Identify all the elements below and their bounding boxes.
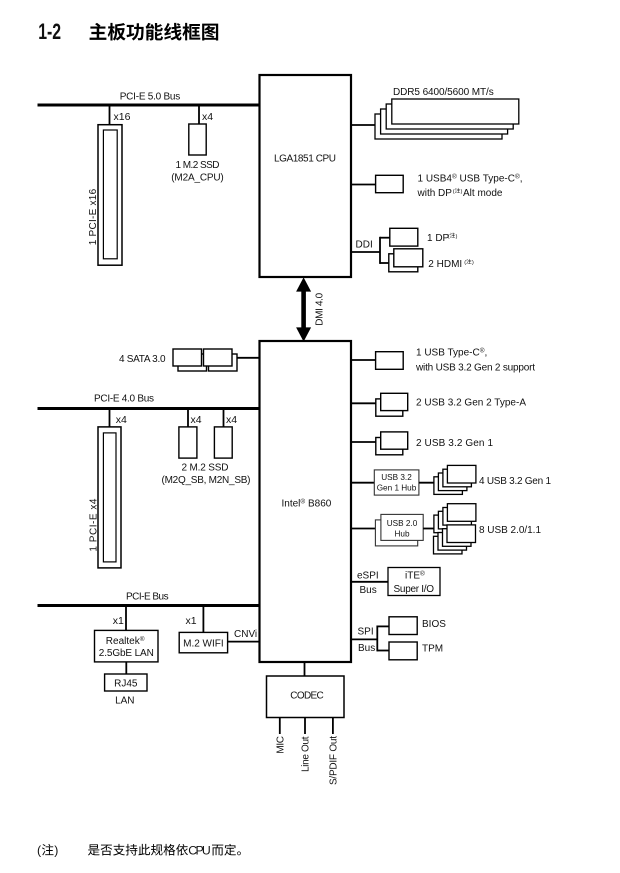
svg-text:x16: x16: [114, 111, 131, 123]
block TPM: [389, 642, 417, 660]
svg-text:Bus: Bus: [360, 585, 377, 596]
wire SPI spine: [376, 626, 378, 652]
port USB 3.2 Gen2 shadow: [376, 399, 403, 416]
port USB 3.2 Gen2 front: [381, 393, 408, 410]
connector M2Q_SB: [179, 427, 197, 458]
svg-text:USB 2.0: USB 2.0: [387, 519, 418, 528]
svg-text:S/PDIF Out: S/PDIF Out: [328, 736, 339, 785]
arrow DMI 4.0: [296, 277, 311, 341]
port USB Type-C: [376, 352, 404, 370]
svg-text:4 SATA 3.0: 4 SATA 3.0: [119, 354, 166, 365]
wire eSPI: [351, 581, 388, 583]
svg-text:2 USB 3.2 Gen 1: 2 USB 3.2 Gen 1: [416, 438, 493, 449]
svg-text:Intel® B860: Intel® B860: [282, 498, 332, 510]
svg-text:USB 3.2: USB 3.2: [381, 473, 412, 482]
svg-text:1 USB4® USB Type-C®,: 1 USB4® USB Type-C®,: [418, 172, 523, 184]
svg-text:(: (: [448, 234, 450, 240]
svg-text:PCI-E 4.0 Bus: PCI-E 4.0 Bus: [94, 393, 154, 404]
block Realtek 2.5GbE LAN: [95, 630, 159, 662]
wire B860 to USB 2.0 hub: [351, 528, 376, 530]
svg-text:2.5GbE LAN: 2.5GbE LAN: [99, 648, 154, 659]
svg-text:CNVi: CNVi: [234, 629, 257, 640]
hub USB 2.0 Hub shadow: [375, 520, 417, 546]
block RJ45: [105, 674, 147, 691]
svg-text:RJ45: RJ45: [114, 679, 138, 690]
wire x4 slot branch: [109, 409, 111, 428]
svg-text:CPU: CPU: [188, 844, 211, 858]
bus PCI-E line: [38, 604, 260, 607]
connector DDR5 slot 4: [375, 114, 502, 139]
block Intel B860: [260, 341, 352, 662]
connector SATA pair2 shadow: [209, 354, 238, 371]
wire x1 branch LAN: [125, 606, 127, 631]
svg-text:2 HDMI: 2 HDMI: [428, 259, 462, 270]
title text 主板功能线框图: [90, 23, 219, 41]
svg-text:(M2A_CPU): (M2A_CPU): [171, 173, 224, 184]
ports 4 USB 3.2 Gen 1 stack: [434, 465, 476, 494]
connector M2A_CPU: [189, 124, 206, 155]
port USB 3.2 Gen1 front: [381, 432, 408, 449]
wire MIC: [279, 718, 281, 734]
block CPU LGA1851: [260, 75, 352, 277]
port DP: [390, 228, 418, 246]
connector DDR5 slot 2: [386, 104, 513, 129]
svg-text:): ): [472, 260, 474, 266]
svg-text:1 DP: 1 DP: [427, 233, 450, 244]
slot PCI-E x4 outer: [98, 427, 121, 568]
wire DDI horizontal: [351, 251, 380, 253]
svg-text:x4: x4: [226, 414, 237, 426]
svg-text:x4: x4: [191, 414, 202, 426]
svg-text:DMI 4.0: DMI 4.0: [314, 292, 325, 325]
svg-text:BIOS: BIOS: [422, 619, 446, 630]
slot PCI-E x4 inner: [103, 433, 116, 562]
wire LAN to RJ45: [125, 662, 127, 675]
connector SATA pair1 front: [173, 349, 202, 366]
svg-text:Super I/O: Super I/O: [394, 584, 435, 595]
svg-text:1-2: 1-2: [38, 21, 61, 45]
slot PCI-E x16 outer: [98, 125, 122, 266]
svg-text:M.2 WIFI: M.2 WIFI: [183, 638, 224, 649]
wire B860 to USB 3.2 Gen1 ports: [351, 441, 376, 443]
block CODEC: [267, 676, 345, 718]
wire M2N branch: [223, 409, 225, 428]
svg-text:Hub: Hub: [394, 529, 409, 538]
port HDMI shadow: [389, 254, 418, 272]
svg-text:(M2Q_SB, M2N_SB): (M2Q_SB, M2N_SB): [162, 475, 251, 486]
svg-text:): ): [456, 234, 458, 240]
svg-text:with USB 3.2 Gen 2 support: with USB 3.2 Gen 2 support: [415, 363, 535, 374]
wire SPI horizontal: [351, 638, 377, 640]
connector DDR5 slot 3: [381, 109, 508, 134]
svg-text:1 PCI-E x16: 1 PCI-E x16: [88, 188, 99, 245]
svg-text:LAN: LAN: [115, 695, 134, 706]
svg-text:1 PCI-E x4: 1 PCI-E x4: [89, 498, 100, 551]
svg-text:x1: x1: [186, 615, 197, 627]
svg-text:8 USB 2.0/1.1: 8 USB 2.0/1.1: [479, 525, 541, 536]
port USB 3.2 Gen1 shadow: [376, 438, 403, 455]
wire stub to HDMI: [380, 262, 390, 264]
ports 8 USB 2.0 stack lower: [434, 525, 476, 554]
port HDMI front: [394, 249, 423, 267]
svg-text:DDR5 6400/5600 MT/s: DDR5 6400/5600 MT/s: [393, 87, 494, 98]
wire B860 to USB 3.2 hub: [351, 482, 374, 484]
svg-text:eSPI: eSPI: [357, 570, 379, 581]
block BIOS: [389, 617, 417, 635]
svg-text:CODEC: CODEC: [290, 690, 324, 701]
svg-text:Bus: Bus: [358, 643, 375, 654]
svg-text:x4: x4: [202, 111, 213, 123]
wire stub BIOS: [377, 625, 389, 627]
svg-text:1 USB Type-C®,: 1 USB Type-C®,: [416, 346, 487, 358]
svg-text:SPI: SPI: [358, 627, 374, 638]
ports 8 USB 2.0 stack upper: [434, 504, 476, 533]
wire CPU to USB4 port: [351, 184, 376, 186]
svg-text:DDI: DDI: [356, 239, 373, 250]
svg-text:PCI-E Bus: PCI-E Bus: [126, 591, 169, 602]
svg-text:TPM: TPM: [422, 644, 443, 655]
wire DDI spine: [379, 237, 381, 264]
wire Line Out: [304, 718, 306, 734]
svg-text:x1: x1: [113, 615, 124, 627]
block iTE Super I/O: [388, 568, 440, 596]
svg-text:PCI-E 5.0 Bus: PCI-E 5.0 Bus: [120, 92, 181, 103]
wire x4 branch to M2A: [198, 105, 200, 124]
connector SATA pair2 front: [204, 349, 233, 366]
svg-text:Line Out: Line Out: [301, 736, 312, 772]
wire stub to DP: [380, 237, 391, 239]
wire B860 to USB Type-C port: [351, 359, 376, 361]
wire x16 branch: [109, 105, 111, 125]
bus PCI-E 4.0 line: [38, 407, 260, 410]
slot PCI-E x16 inner: [103, 130, 117, 259]
bus PCI-E 5.0 line: [38, 104, 260, 107]
wire M2Q branch: [187, 409, 189, 428]
footnote text 是否支持此规格依CPU而定。: [88, 844, 188, 856]
wire hub to 4xUSB stack: [419, 482, 435, 484]
svg-text:1 M.2 SSD: 1 M.2 SSD: [176, 160, 220, 171]
hub USB 3.2 Gen 1 Hub: [374, 470, 419, 495]
svg-text:(: (: [464, 260, 466, 266]
svg-text:LGA1851 CPU: LGA1851 CPU: [274, 153, 336, 164]
svg-text:2 M.2 SSD: 2 M.2 SSD: [182, 463, 229, 474]
svg-text:2 USB 3.2 Gen 2 Type-A: 2 USB 3.2 Gen 2 Type-A: [416, 397, 526, 408]
port USB4 Type-C: [376, 175, 404, 192]
block M.2 WIFI: [179, 632, 227, 652]
svg-text:): ): [54, 844, 58, 858]
wire B860 to USB 3.2 Gen2 ports: [351, 402, 376, 404]
wire stub TPM: [377, 650, 389, 652]
svg-text:4 USB 3.2 Gen 1: 4 USB 3.2 Gen 1: [479, 476, 551, 487]
wire CPU to DDR5: [351, 124, 378, 126]
svg-text:MIC: MIC: [275, 736, 286, 754]
connector M2N_SB: [214, 427, 232, 458]
hub USB 2.0 Hub front: [381, 514, 423, 540]
connector SATA pair1 shadow: [178, 354, 207, 371]
connector DDR5 slot 1: [392, 99, 519, 124]
svg-text:Alt mode: Alt mode: [463, 188, 503, 199]
svg-text:Realtek®: Realtek®: [106, 635, 145, 647]
svg-text:with DP: with DP: [417, 188, 453, 199]
wire SPDIF Out: [332, 718, 334, 734]
wire B860 to CODEC: [304, 662, 306, 676]
svg-text:x4: x4: [116, 414, 127, 426]
wire x1 branch WIFI: [202, 606, 204, 633]
svg-text:(: (: [453, 189, 455, 195]
wire hub to 8xUSB stack: [423, 528, 435, 530]
svg-text:Gen 1 Hub: Gen 1 Hub: [377, 484, 417, 493]
wire SATA to B860: [237, 357, 260, 359]
wire CNVi to B860: [228, 641, 260, 643]
